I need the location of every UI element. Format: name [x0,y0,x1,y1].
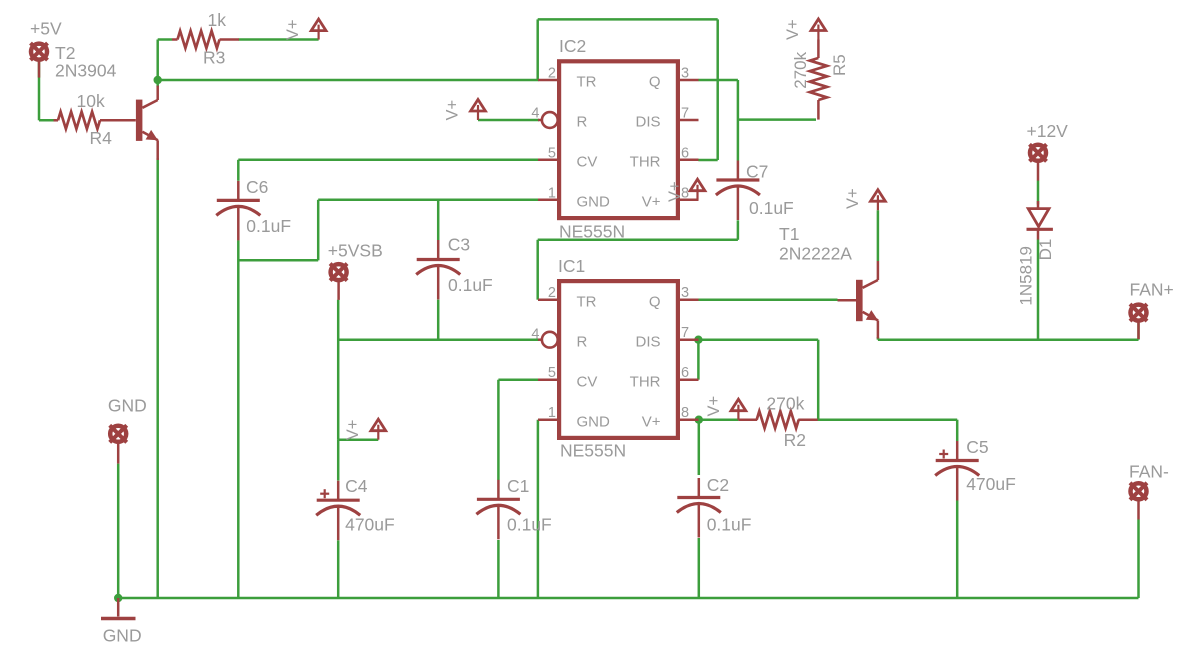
svg-text:IC2: IC2 [559,36,586,56]
svg-text:T1: T1 [779,224,799,244]
svg-text:V+: V+ [642,193,661,210]
svg-text:V+: V+ [784,19,802,40]
svg-text:2: 2 [548,66,556,82]
svg-text:GND: GND [577,193,611,210]
svg-text:2N2222A: 2N2222A [779,244,852,264]
svg-text:FAN+: FAN+ [1130,280,1174,300]
svg-text:270k: 270k [791,51,810,88]
svg-text:1N5819: 1N5819 [1017,246,1036,306]
svg-text:C5: C5 [966,437,988,457]
svg-text:R: R [577,114,588,131]
svg-text:V+: V+ [284,19,302,40]
svg-text:Q: Q [649,293,661,310]
svg-text:C7: C7 [746,162,768,182]
svg-text:GND: GND [577,413,611,430]
svg-text:V+: V+ [666,181,684,202]
svg-text:GND: GND [103,626,142,646]
svg-text:V+: V+ [705,396,723,417]
svg-text:470uF: 470uF [966,474,1016,494]
svg-text:C2: C2 [707,475,729,495]
svg-text:4: 4 [531,105,539,121]
svg-text:5: 5 [548,365,556,381]
svg-text:C6: C6 [246,177,268,197]
svg-text:THR: THR [630,373,661,390]
svg-text:C3: C3 [448,235,470,255]
svg-text:FAN-: FAN- [1129,462,1169,482]
svg-text:0.1uF: 0.1uF [507,515,552,535]
svg-text:C4: C4 [345,476,368,496]
svg-text:1: 1 [548,185,556,201]
svg-text:THR: THR [630,153,661,170]
svg-text:0.1uF: 0.1uF [448,275,493,295]
svg-text:2N3904: 2N3904 [55,61,117,81]
svg-text:10k: 10k [77,91,105,111]
svg-text:V+: V+ [344,420,362,441]
svg-text:CV: CV [577,153,598,170]
svg-text:3: 3 [681,285,689,301]
svg-text:8: 8 [681,405,689,421]
svg-text:R2: R2 [784,430,806,450]
svg-text:7: 7 [681,325,689,341]
svg-text:Q: Q [649,74,661,91]
svg-text:3: 3 [681,66,689,82]
svg-text:1: 1 [548,405,556,421]
svg-text:V+: V+ [642,413,661,430]
svg-text:+12V: +12V [1027,121,1069,141]
svg-text:0.1uF: 0.1uF [749,198,794,218]
svg-text:NE555N: NE555N [560,440,626,460]
svg-text:IC1: IC1 [558,256,585,276]
svg-text:6: 6 [681,365,689,381]
svg-text:TR: TR [577,74,597,91]
svg-text:+5V: +5V [30,19,62,39]
svg-text:D1: D1 [1036,239,1055,261]
svg-text:GND: GND [108,396,147,416]
svg-text:270k: 270k [766,393,804,413]
svg-text:NE555N: NE555N [559,221,625,241]
svg-text:0.1uF: 0.1uF [707,515,752,535]
svg-text:CV: CV [577,373,598,390]
svg-text:TR: TR [577,293,597,310]
svg-text:C1: C1 [507,476,529,496]
svg-text:470uF: 470uF [345,515,395,535]
svg-text:DIS: DIS [635,114,660,131]
svg-text:4: 4 [531,327,539,343]
svg-text:0.1uF: 0.1uF [246,216,291,236]
svg-text:1k: 1k [208,10,227,30]
svg-text:R5: R5 [830,54,849,76]
svg-text:V+: V+ [844,188,862,209]
svg-text:6: 6 [681,145,689,161]
svg-text:R3: R3 [203,47,225,67]
svg-text:5: 5 [548,145,556,161]
svg-text:R4: R4 [90,128,113,148]
svg-text:V+: V+ [444,100,462,121]
svg-text:+5VSB: +5VSB [328,241,383,261]
svg-text:2: 2 [548,285,556,301]
svg-text:7: 7 [681,106,689,122]
svg-text:R: R [577,333,588,350]
svg-text:DIS: DIS [635,333,660,350]
